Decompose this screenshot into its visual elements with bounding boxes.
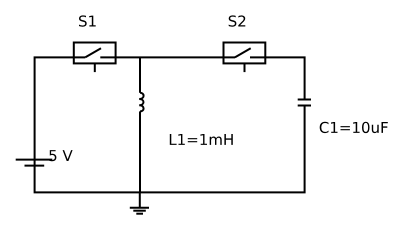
label C1=10uF (capacitor value) <box>320 122 388 133</box>
label S1 <box>79 15 96 26</box>
label L1=1mH (inductor value) <box>170 134 233 145</box>
wire: node between battery + and S1 (top-left corner, left rail, bottom rail, up to C1 bottom lead) <box>35 57 305 192</box>
switch S2 <box>224 43 266 73</box>
wire: S2 right contact to top-right corner down to C1 top lead <box>250 57 305 99</box>
switch S1 <box>74 43 116 73</box>
inductor L1 <box>139 57 143 192</box>
capacitor C1 (plates) <box>298 100 311 106</box>
wire: S1 right contact to S2 left contact through top node of L1 <box>100 56 235 58</box>
battery V1 5 V (plates) <box>16 160 53 166</box>
ground <box>130 192 149 213</box>
label 5 V (battery value) <box>49 150 72 161</box>
label S2 <box>229 15 246 26</box>
